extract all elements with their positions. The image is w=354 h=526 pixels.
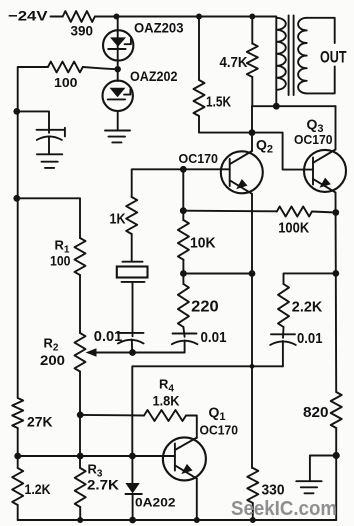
node junction left rail / base line (14, 453, 21, 460)
wire R1 branch horizontal and down (18, 198, 80, 238)
transistor Q3 OC170 (304, 150, 346, 193)
wire 1K to crystal (131, 234, 133, 262)
node junction wiper line / crystal cap (129, 349, 136, 356)
wire Q1 emitter to bottom rail (196, 479, 198, 520)
svg-text:200: 200 (40, 352, 65, 368)
resistor 330 (247, 468, 258, 503)
wire 100 resistor to zener node (83, 67, 116, 69)
wire 220 leads (182, 274, 184, 285)
resistor 2.2K (278, 284, 289, 327)
resistor 100K (277, 207, 312, 217)
wire cap line horizontal to 0A202 branch (132, 366, 283, 456)
wire R2 wiper arm with arrowhead (86, 348, 185, 356)
diode OAZ202 (zener) (103, 81, 133, 111)
resistor 4.7K (247, 44, 258, 78)
svg-text:1.8K: 1.8K (153, 393, 180, 409)
resistor 820 (331, 392, 342, 428)
node junction R2 line / base line (77, 453, 84, 460)
node junction 10K/220 (180, 270, 187, 277)
svg-text:1.5K: 1.5K (206, 94, 231, 111)
svg-text:0.01: 0.01 (201, 329, 227, 346)
resistor 1.5K (194, 80, 205, 116)
svg-text:OAZ202: OAZ202 (130, 68, 178, 84)
wire 1.5K top to rail (198, 17, 200, 81)
wire -24V to R390 (51, 16, 63, 18)
svg-text:2.2K: 2.2K (292, 298, 323, 315)
ground below capacitor C1 (37, 154, 62, 168)
wire top rail (95, 16, 276, 18)
node junction 10K top / 100K line (180, 207, 187, 214)
svg-text:100: 100 (54, 75, 78, 90)
transformer T1 primary winding (276, 17, 286, 107)
wire Q3 base from Q2 collector node (252, 133, 313, 170)
node junction Q2 collector / 1.5K (249, 129, 256, 136)
resistor 27K (12, 398, 23, 428)
wire 100K to right rail (312, 212, 336, 213)
svg-text:OC170: OC170 (179, 151, 219, 166)
node junction right rail / 2.2K (332, 270, 339, 277)
resistor R1 100 (75, 238, 86, 275)
svg-text:2.7K: 2.7K (87, 477, 119, 493)
node junction left rail / R1 branch (13, 195, 20, 202)
resistor R3 2.7K (75, 468, 86, 507)
resistor 1K (126, 197, 137, 234)
wire R2 bottom down (79, 372, 81, 469)
wire zener chain vertical (117, 17, 119, 82)
node junction R2 line / R4 branch (77, 412, 84, 419)
wire 10K bottom to emitter junction (183, 260, 252, 274)
resistor 390 (63, 11, 95, 22)
svg-text:OUT: OUT (320, 47, 347, 66)
wire transformer bottom horizontal (252, 105, 336, 107)
wire R4 leads (80, 414, 144, 417)
capacitor C1 (filter, top straight plate + curved plate) (37, 128, 65, 154)
node junction emitter line / cap line (250, 364, 255, 369)
wire 10K branch vertical from base line (182, 169, 184, 220)
wire 1.2K to bottom rail (17, 505, 19, 520)
wire R1 to R2 (79, 275, 81, 333)
crystal Y1 (117, 262, 148, 282)
capacitor 0.01 (2.2K branch) (270, 334, 296, 366)
wire zener bottom to ground (117, 111, 119, 130)
svg-text:1.2K: 1.2K (25, 481, 51, 497)
resistor 10K (178, 220, 189, 260)
wire base line horizontal to Q1 (18, 455, 175, 457)
svg-text:820: 820 (303, 404, 329, 421)
svg-text:0A202: 0A202 (135, 496, 176, 510)
node junction right rail / 100K (332, 209, 339, 216)
svg-text:−24V: −24V (8, 8, 48, 24)
node junction emitter line (249, 270, 256, 277)
resistor 1.2K (12, 468, 23, 505)
wire 2.2K top branch (284, 273, 336, 284)
transistor Q2 OC170 (221, 151, 263, 194)
node junction 0A202 branch / Q1 base line (129, 453, 136, 460)
wire 100K line horizontal (183, 210, 276, 213)
svg-text:OAZ203: OAZ203 (134, 20, 184, 36)
diode OAZ203 (zener) (103, 30, 133, 60)
svg-text:220: 220 (191, 299, 219, 316)
node junction top rail / 1.5K (196, 14, 202, 20)
transistor Q1 OC170 (163, 437, 206, 480)
wire 100 resistor left corner down (left rail top) (18, 67, 48, 398)
wire 4.7K bottom down to Q2 collector (251, 77, 253, 106)
wire Q2 collector up (251, 106, 253, 151)
wire 2.2K bottom to cap (282, 327, 285, 338)
resistor R4 1.8K (144, 410, 186, 421)
svg-text:1K: 1K (110, 211, 126, 228)
wire 27K to base rail (17, 428, 19, 468)
node bottom rail junction dots (77, 517, 83, 523)
transformer T1 secondary winding (298, 18, 307, 94)
capacitor 0.01 (crystal branch) (118, 333, 144, 353)
wire 820 to bottom rail (335, 428, 337, 520)
wire OUT loop (307, 18, 335, 94)
ground below zeners (105, 131, 130, 143)
node junction right rail / ground branch (333, 452, 340, 459)
wire 4.7K top to rail (251, 17, 253, 44)
svg-text:330: 330 (262, 482, 285, 499)
wire Q2 emitter down (251, 194, 253, 468)
transformer T1 core (289, 16, 294, 96)
svg-text:100: 100 (50, 252, 71, 268)
svg-text:OC170: OC170 (200, 423, 239, 438)
wire bottom rail (18, 519, 337, 521)
svg-text:SeekIC.com: SeekIC.com (231, 497, 337, 520)
ground near 820 (296, 481, 321, 493)
resistor 220 (178, 284, 189, 327)
svg-text:390: 390 (71, 22, 94, 38)
wire crystal to cap (132, 282, 134, 336)
wire 330 to bottom rail (252, 503, 254, 520)
svg-text:4.7K: 4.7K (220, 54, 248, 71)
wire ground branch (310, 456, 336, 481)
wire 1.5K bottom to Q2 collector node (199, 116, 252, 133)
node junction top rail / 4.7K (249, 14, 255, 20)
svg-text:10K: 10K (190, 235, 216, 252)
svg-text:0.01: 0.01 (297, 330, 323, 347)
node junction primary bottom (273, 103, 280, 110)
wire cap branch (18, 111, 49, 132)
wire Q3 emitter down right rail (335, 192, 338, 392)
wire 1K top corner to Q2 base (132, 169, 230, 197)
svg-text:27K: 27K (27, 414, 53, 430)
wire R3 to bottom rail (79, 507, 81, 520)
svg-text:100K: 100K (278, 220, 309, 237)
diode 0A202 (125, 456, 141, 520)
node junction between zeners (115, 66, 121, 72)
resistor 100 (48, 62, 83, 73)
node junction left rail / filter cap branch (13, 108, 20, 115)
wire Q3 collector up to transformer bottom (335, 106, 337, 149)
svg-text:0.01: 0.01 (94, 328, 123, 345)
capacitor 0.01 (220 branch) (172, 334, 198, 353)
resistor R2 200 (potentiometer) (75, 333, 86, 372)
node junction top rail / zeners (114, 14, 120, 20)
node junction base line / 10K branch (180, 166, 187, 173)
svg-text:OC170: OC170 (294, 132, 333, 147)
